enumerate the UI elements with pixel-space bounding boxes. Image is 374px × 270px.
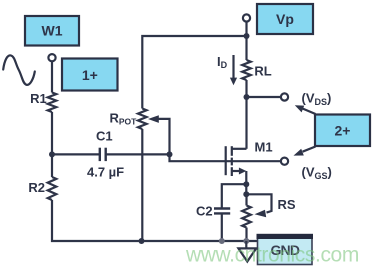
wire source node A to node B <box>245 184 247 194</box>
wire R1 to C1 node <box>51 112 53 154</box>
svg-text:1+: 1+ <box>82 67 98 83</box>
wire terminal to R1 <box>51 61 53 92</box>
wire RS bottom <box>245 228 247 242</box>
supply label Vp <box>257 4 313 34</box>
svg-text:R1: R1 <box>30 91 47 106</box>
node drain junction <box>244 94 250 100</box>
svg-text:W1: W1 <box>42 23 63 39</box>
wire gate <box>170 154 281 161</box>
svg-text:R2: R2 <box>28 180 45 195</box>
capacitor C1 wire right <box>106 153 170 155</box>
terminal Vp <box>243 14 250 21</box>
ground symbol <box>238 248 256 261</box>
terminal VDS <box>281 93 288 100</box>
node RS / ground rail junction <box>243 238 249 244</box>
potentiometer wiper arrow <box>148 115 170 154</box>
scope channel label W1 <box>25 16 79 46</box>
scope channel label 2+ <box>315 115 370 147</box>
capacitor C1 wire left <box>52 153 100 155</box>
RS wiper arrow <box>246 194 271 217</box>
wire rail to RL <box>245 36 247 60</box>
transistor M1 <box>226 146 247 184</box>
resistor R2 <box>48 177 57 200</box>
svg-text:www.cntronics.com: www.cntronics.com <box>185 244 359 267</box>
wire RL to drain node <box>245 80 247 97</box>
node C1 / pot wiper junction <box>167 151 173 157</box>
node C2 / ground rail junction <box>219 238 225 244</box>
node source / RS wiper junction <box>243 191 249 197</box>
current arrow ID <box>230 55 237 85</box>
wire top rail <box>142 36 246 109</box>
svg-text:M1: M1 <box>255 140 273 155</box>
svg-text:C2: C2 <box>196 204 213 219</box>
function generator sine symbol <box>3 55 35 84</box>
node C1 left junction <box>49 151 55 157</box>
wire node to R2 <box>51 154 53 177</box>
pointer arrow to VDS <box>295 105 316 114</box>
wire R2 to ground rail <box>52 200 258 241</box>
node source / C2 junction <box>243 181 249 187</box>
wire to VDS terminal <box>247 96 281 98</box>
wire Vp to rail <box>245 22 247 36</box>
node top rail junction <box>244 33 250 39</box>
svg-text:Vp: Vp <box>276 11 294 27</box>
svg-text:RL: RL <box>254 64 271 79</box>
ground label GND <box>257 234 314 265</box>
resistor RS <box>242 206 251 228</box>
ground stub <box>245 241 247 248</box>
capacitor C1 <box>100 148 106 161</box>
wire source node to C2 <box>222 184 247 208</box>
svg-text:2+: 2+ <box>335 123 351 139</box>
potentiometer RPOT <box>138 109 147 130</box>
pointer arrow to VGS <box>294 147 316 156</box>
resistor R1 <box>48 93 57 113</box>
terminal node (W1 / 1+) <box>48 54 55 61</box>
svg-text:C1: C1 <box>96 129 113 144</box>
wire node B to RS <box>245 194 247 205</box>
scope channel label 1+ <box>62 59 118 91</box>
node pot / ground rail junction <box>139 238 145 244</box>
wire pot bottom <box>141 129 143 241</box>
svg-text:4.7 µF: 4.7 µF <box>87 165 124 180</box>
wire C2 bottom <box>221 213 223 241</box>
wire drain <box>245 97 247 149</box>
capacitor C2 <box>214 209 230 214</box>
resistor RL <box>242 60 251 80</box>
svg-text:RS: RS <box>278 197 296 212</box>
terminal VGS <box>281 158 288 165</box>
